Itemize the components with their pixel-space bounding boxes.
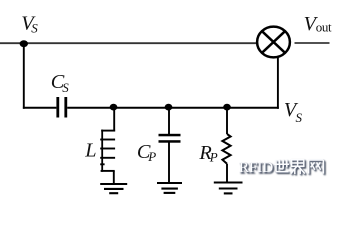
wire Rp top lead	[226, 107, 228, 134]
wire lamp right lead to Vout	[295, 42, 330, 44]
label Vs (right, at bus end)	[284, 99, 303, 125]
node Vs (junction dot, top-left)	[20, 40, 28, 47]
label Vout	[304, 13, 332, 35]
resistor Rp (zigzag)	[222, 134, 230, 164]
inductor L	[100, 130, 115, 172]
wire top horizontal from Vs node to lamp	[0, 42, 258, 44]
label Rp	[198, 142, 217, 164]
ground under Cp	[157, 183, 182, 193]
svg-text:L: L	[84, 140, 96, 162]
lamp / antenna indicator (circle with X)	[257, 27, 290, 58]
wire L bottom lead	[113, 171, 115, 184]
svg-text:P: P	[147, 149, 156, 164]
node junction at L	[110, 104, 118, 111]
capacitor Cs	[56, 97, 67, 118]
wire Cp bottom lead	[168, 143, 170, 184]
label Vs (top-left)	[21, 13, 38, 36]
wire lamp bottom lead down to bus	[277, 57, 279, 109]
svg-text:S: S	[31, 21, 38, 36]
ground under L	[100, 184, 127, 193]
svg-text:S: S	[62, 80, 69, 95]
ground under Rp	[214, 183, 243, 194]
label L	[84, 140, 96, 162]
wire left vertical from Vs node down to Cs	[23, 43, 25, 109]
wire L top lead	[113, 107, 115, 132]
label Cs	[51, 71, 70, 95]
capacitor Cp	[159, 134, 181, 143]
node junction at Cp	[165, 104, 173, 111]
svg-text:P: P	[209, 149, 218, 164]
wire Rp bottom lead	[226, 164, 228, 183]
svg-text:S: S	[296, 110, 303, 125]
svg-text:RFID: RFID	[239, 160, 273, 176]
node junction at Rp	[223, 104, 231, 111]
label Cp	[137, 141, 156, 164]
wire Cp top lead	[168, 107, 170, 135]
svg-text:out: out	[316, 19, 332, 34]
wire bottom bus left segment to Cs	[23, 107, 57, 109]
wire bottom bus from Cs to lamp drop	[67, 107, 279, 109]
